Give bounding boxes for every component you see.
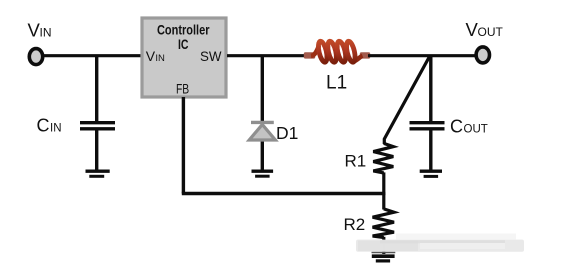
pin VIN of IC	[146, 48, 165, 64]
svg-text:Controller: Controller	[157, 22, 210, 37]
wire diagonal from output node to R1	[384, 57, 429, 145]
svg-text:R2: R2	[344, 215, 366, 234]
wire VIN terminal to IC VIN pin	[44, 54, 142, 57]
svg-text:SW: SW	[200, 48, 222, 64]
wire FB pin down	[182, 97, 185, 194]
svg-text:D1: D1	[276, 123, 298, 143]
wire SW pin to inductor	[227, 54, 307, 57]
ground (R2)	[372, 252, 396, 261]
label Controller IC	[157, 22, 210, 52]
resistor R2	[373, 209, 394, 238]
svg-text:R1: R1	[345, 152, 367, 171]
ground (D1)	[252, 171, 274, 176]
node VOUT terminal	[476, 47, 489, 63]
op-amp U1 controller IC box	[142, 18, 226, 97]
wire diode branch from SW node	[261, 56, 264, 170]
ground (CIN)	[86, 171, 110, 176]
node VIN terminal	[29, 49, 42, 65]
svg-text:L1: L1	[326, 73, 347, 94]
svg-text:FB: FB	[176, 82, 189, 97]
capacitor CIN	[80, 123, 115, 129]
ground (COUT)	[420, 171, 442, 176]
diode D1	[249, 122, 275, 140]
svg-text:C: C	[37, 116, 50, 136]
wire FB horizontal to divider node	[182, 192, 386, 195]
wire COUT to ground	[429, 130, 432, 170]
svg-text:IN: IN	[155, 53, 165, 64]
wire feedback node to R2	[382, 194, 385, 210]
svg-text:IN: IN	[50, 123, 62, 135]
wire CIN branch from input rail	[95, 56, 98, 122]
svg-text:OUT: OUT	[464, 124, 488, 136]
inductor L1	[304, 40, 370, 62]
wire CIN to ground	[95, 130, 98, 170]
label VIN	[28, 20, 52, 41]
label CIN	[37, 116, 62, 136]
wire inductor to VOUT node	[368, 54, 476, 57]
svg-text:OUT: OUT	[478, 25, 504, 39]
watermark blur band	[356, 234, 524, 252]
label VOUT	[466, 19, 504, 40]
svg-text:IC: IC	[178, 37, 189, 52]
svg-text:C: C	[450, 117, 463, 137]
wire R2 to ground	[382, 237, 385, 254]
capacitor COUT	[410, 123, 445, 129]
svg-text:IN: IN	[40, 26, 52, 40]
label COUT	[450, 117, 488, 137]
wire R1 to feedback node	[382, 172, 385, 195]
svg-text:V: V	[146, 48, 156, 64]
wire COUT branch from output node	[429, 56, 432, 122]
resistor R1	[373, 143, 393, 173]
